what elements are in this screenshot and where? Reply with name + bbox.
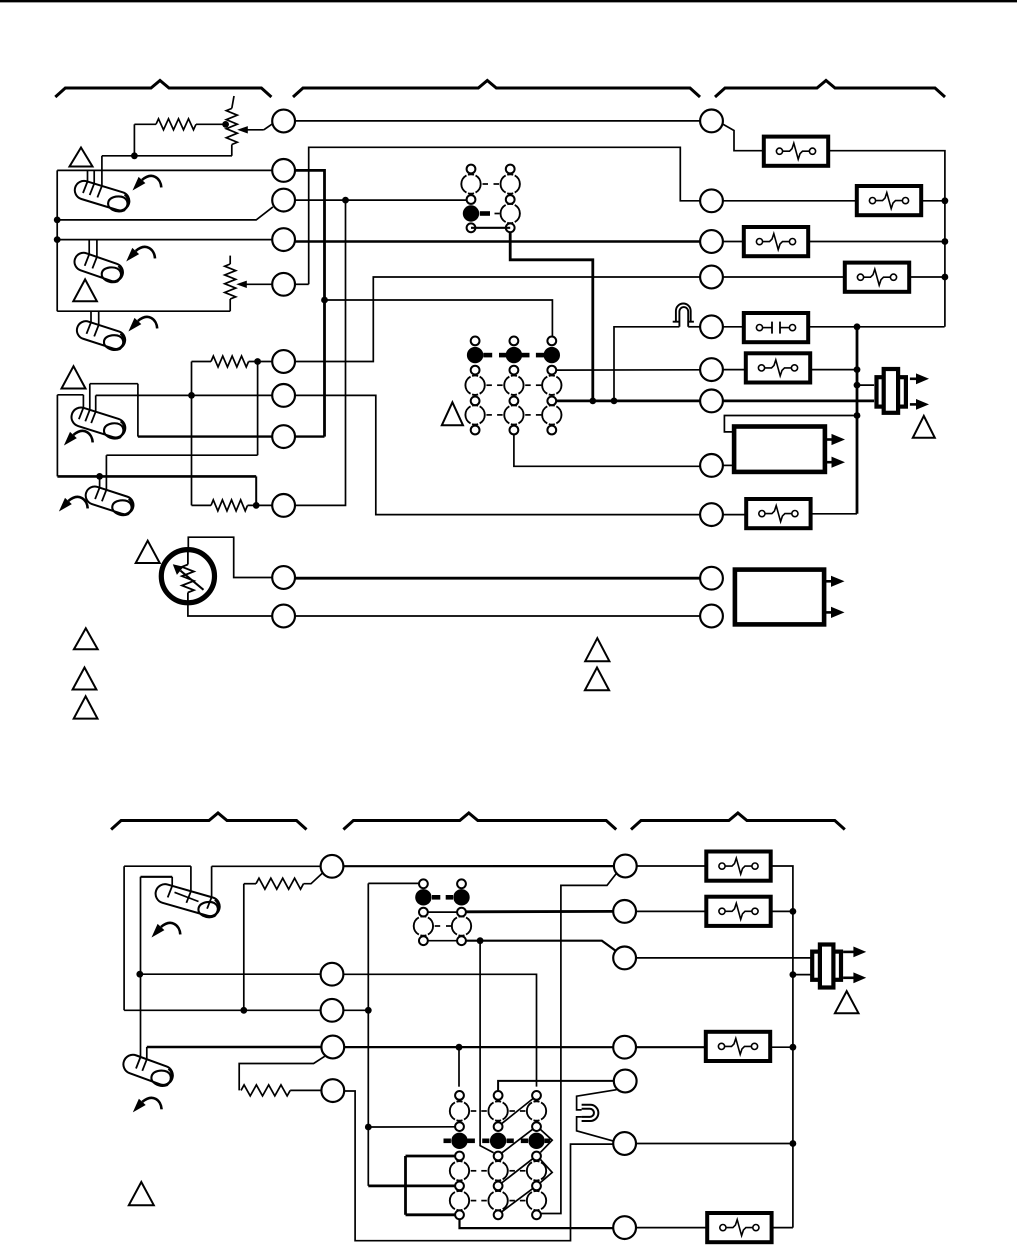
K3 row3 link bbox=[428, 911, 457, 913]
relay contact K4 column 3 bbox=[532, 1091, 541, 1100]
overload box F10 bbox=[707, 1213, 771, 1242]
terminal L4 bbox=[272, 228, 295, 251]
capacitor box C1 bbox=[744, 313, 808, 342]
wire S5 row lower bbox=[57, 475, 256, 478]
resistor R4 wire bbox=[192, 504, 212, 506]
junction dot riser G4 bbox=[790, 1044, 797, 1051]
wire K4 col3 bottom right bbox=[541, 873, 617, 1214]
wire S5 electrode b bbox=[105, 455, 107, 490]
K1 tick marks row2 bbox=[483, 183, 489, 185]
terminal R10 bbox=[700, 567, 723, 590]
junction dot R4 right bbox=[253, 502, 260, 509]
wire F4 right bbox=[909, 276, 945, 278]
brace group 2 (middle section, upper diagram) bbox=[293, 81, 700, 98]
note triangle 5 bbox=[74, 628, 98, 649]
K1 bottom link bbox=[471, 227, 510, 229]
resistor R5 wire bbox=[244, 883, 256, 885]
relay contact K3 column 1 bbox=[419, 879, 428, 888]
K4 tick marks row8 bbox=[471, 1200, 477, 1202]
terminal G7 bbox=[613, 1216, 636, 1239]
terminal G2 bbox=[613, 900, 636, 923]
overload box F7 bbox=[706, 852, 770, 881]
overload box F5 bbox=[746, 353, 810, 382]
wire S4 loop right vertical bbox=[137, 384, 139, 437]
wire S4 left piece bbox=[57, 394, 83, 396]
wire F3 right bbox=[808, 241, 945, 243]
relay contact K2 column 1 bbox=[471, 337, 480, 346]
wire pot1 bottom row bbox=[102, 155, 232, 157]
wire L2 right thick bbox=[295, 170, 325, 436]
terminal G6 bbox=[613, 1132, 636, 1155]
wire L9 right riser bbox=[295, 200, 346, 505]
junction dot riser G6 bbox=[790, 1140, 797, 1147]
buzzer BZ1 bbox=[877, 377, 906, 406]
wire left bus vertical bbox=[56, 170, 58, 311]
wire S3 row bbox=[57, 310, 230, 312]
resistor R6 bbox=[241, 1085, 290, 1096]
wire K2 col2 drop to R8 bbox=[514, 434, 700, 466]
wire S1 electrode b bbox=[93, 170, 95, 183]
note triangle BZ2 bbox=[835, 991, 859, 1013]
wire F1 right bus bbox=[828, 151, 945, 327]
wire transformer T1 top bbox=[724, 416, 857, 432]
wire buzzer stub 2 bbox=[793, 974, 811, 976]
wire C right bbox=[343, 1009, 368, 1011]
wire K3 row5 to G3 bbox=[466, 941, 615, 951]
wire R8 lead bbox=[723, 464, 734, 466]
junction dot K3 row5 bbox=[477, 937, 484, 944]
note triangle K2 bbox=[442, 402, 463, 425]
wire F10 right bbox=[771, 1227, 793, 1229]
transformer box T2 bbox=[735, 570, 824, 625]
junction dot C riser bbox=[365, 1007, 372, 1014]
BZ2 arrow top bbox=[843, 951, 854, 954]
wire R1 to box F1 bbox=[722, 124, 764, 151]
K4 actuator bars bbox=[444, 1139, 451, 1144]
note triangle BZ1 bbox=[913, 416, 935, 438]
wire S2 electrode b bbox=[96, 240, 98, 257]
wire F6 right bbox=[811, 513, 857, 515]
terminal G1 bbox=[614, 855, 637, 878]
K4 diagonal link 4 bbox=[502, 1188, 533, 1212]
page top border line bbox=[0, 0, 1017, 2]
wire K4 row3 left bbox=[368, 1126, 455, 1128]
wire B riser left bbox=[140, 877, 142, 1057]
note triangle 9 bbox=[585, 668, 609, 691]
resistor R3 bbox=[211, 356, 249, 367]
wire K3 row1 link bbox=[368, 882, 418, 884]
wire S4 electrode mid bbox=[89, 384, 91, 410]
terminal A bbox=[321, 855, 344, 878]
wire bulb S1 electrode drop bbox=[101, 156, 103, 186]
wire terminal D row bbox=[147, 1046, 322, 1049]
wire S6 electrode a bbox=[171, 877, 173, 886]
overload box F3 bbox=[744, 227, 808, 256]
terminal R3 bbox=[700, 230, 723, 253]
terminal L10 bbox=[272, 566, 295, 589]
wire K4 jumper 5-9 bbox=[404, 1156, 407, 1215]
overload box F1 bbox=[764, 137, 828, 166]
terminal B bbox=[321, 963, 344, 986]
wire G1 lead bbox=[637, 865, 707, 867]
wire K2 col3 row3 to R6 bbox=[556, 369, 700, 371]
terminal L7 bbox=[272, 384, 295, 407]
wire K2 col3 row5 to R7 bbox=[556, 399, 700, 402]
overload box F6 bbox=[746, 499, 810, 528]
resistor R1 bbox=[156, 119, 196, 130]
wire G2 lead bbox=[636, 910, 707, 912]
terminal L3 bbox=[272, 189, 295, 212]
wire K1 col2 drop bbox=[510, 232, 593, 401]
terminal L5 bbox=[272, 273, 295, 296]
wire R5 lead bbox=[723, 326, 744, 328]
wire S2 electrode a bbox=[88, 240, 90, 255]
wire L6 right bbox=[295, 277, 700, 362]
wire G3 to buzzer bbox=[636, 957, 811, 959]
wire buzzer stub bbox=[857, 384, 874, 386]
wire F9 right bbox=[770, 1046, 793, 1048]
junction dot riser F5 bbox=[854, 366, 861, 373]
buzzer BZ2 bbox=[812, 952, 841, 980]
wire lamp branch riser bbox=[614, 327, 679, 401]
terminal R1 bbox=[700, 110, 723, 133]
note triangle 1 bbox=[70, 148, 93, 167]
wire K3 row3 to G2 bbox=[466, 910, 613, 913]
wire S1 electrode a bbox=[87, 170, 89, 181]
wire S3 electrode b bbox=[98, 311, 100, 325]
K2 actuator bars bbox=[483, 353, 492, 358]
junction dot L2 branch bbox=[321, 297, 328, 304]
rheostat bottom lead bbox=[188, 603, 273, 616]
terminal L2 bbox=[272, 159, 295, 182]
mercury switch S7 bbox=[120, 1052, 175, 1089]
brace group 3 (right section, upper diagram) bbox=[715, 81, 945, 98]
wire lamp to G6 bbox=[577, 1117, 616, 1142]
wire B to cluster K4 bbox=[343, 974, 536, 1086]
wire L7-R9 route bbox=[295, 395, 700, 514]
wire R6 lead bbox=[723, 369, 746, 371]
rotation arrow S2 bbox=[136, 247, 155, 258]
terminal R7 bbox=[700, 390, 723, 413]
wire F2 right bbox=[921, 200, 945, 202]
mercury switch S4 bbox=[69, 405, 128, 441]
wire F7 right riser bbox=[770, 866, 793, 1228]
terminal R9 bbox=[700, 503, 723, 526]
terminal R4 bbox=[700, 266, 723, 289]
overload box F2 bbox=[857, 186, 921, 215]
relay contact K1 column 1 bbox=[467, 165, 476, 174]
indicator lamp LP1 bbox=[676, 304, 691, 322]
potentiometer P1 bbox=[226, 108, 237, 144]
junction dot bus F3 bbox=[942, 238, 949, 245]
K2 tick marks row4 bbox=[486, 384, 492, 386]
BZ2 arrow bottom bbox=[843, 976, 854, 979]
wire L5 right bbox=[295, 283, 309, 285]
terminal R6 bbox=[700, 358, 723, 381]
K3 row5 link bbox=[428, 940, 457, 942]
note triangle 3 bbox=[62, 366, 86, 388]
terminal L8 bbox=[272, 425, 295, 448]
rotation arrow S4 bbox=[73, 431, 92, 442]
rotation arrow S3 bbox=[138, 317, 157, 328]
mercury switch S5 bbox=[83, 484, 136, 518]
wire K4 row5 left bbox=[406, 1155, 456, 1158]
wire L4-R3 bbox=[295, 240, 700, 242]
relay contact K4 column 1 bbox=[455, 1091, 464, 1100]
wire G5 lamp diagonal bbox=[577, 1090, 617, 1110]
K1 actuator bar bbox=[480, 211, 490, 216]
wire K4 col1 bottom to G7 bbox=[460, 1219, 614, 1228]
transformer box T1 bbox=[734, 427, 825, 472]
junction dot R1 lead bbox=[131, 152, 138, 159]
junction dot L3 bus bbox=[54, 217, 61, 224]
pot P1 wiper arrow bbox=[246, 129, 264, 131]
terminal G5 bbox=[614, 1070, 637, 1093]
terminal L9 bbox=[272, 494, 295, 517]
wire terminal L8 row bbox=[138, 435, 325, 437]
wire G7 lead bbox=[636, 1227, 708, 1229]
T2 arrow bottom bbox=[824, 611, 831, 614]
wire K4 col1 top bbox=[458, 1047, 460, 1087]
wire F8 right bbox=[770, 910, 793, 912]
terminal E bbox=[321, 1079, 344, 1102]
terminal G4 bbox=[613, 1036, 636, 1059]
terminal L11 bbox=[272, 605, 295, 628]
pot P2 wiper arrow bbox=[245, 283, 272, 285]
wire S6 electrode c bbox=[211, 866, 213, 897]
resistor R5 bbox=[256, 878, 304, 889]
junction dot K4 row3 bbox=[365, 1124, 372, 1131]
wire S7 electrode b bbox=[146, 1047, 148, 1059]
wire terminal C row bbox=[124, 1009, 321, 1011]
note triangle 2 bbox=[73, 279, 97, 301]
wire K4 col2 top stub bbox=[498, 1081, 614, 1091]
rotation arrow S7 bbox=[142, 1098, 161, 1109]
rotation arrow S6 bbox=[161, 923, 180, 934]
wire S4 electrode left bbox=[82, 395, 84, 408]
terminal L6 bbox=[272, 350, 295, 373]
relay contact K2 column 3 bbox=[547, 337, 556, 346]
mercury switch S6 bbox=[153, 882, 222, 920]
wire left bus 2 vertical bbox=[56, 395, 58, 477]
BZ1 arrow bottom bbox=[910, 403, 917, 406]
terminal R8 bbox=[700, 454, 723, 477]
wire R3 lead bbox=[723, 241, 744, 243]
note triangle 6 bbox=[73, 668, 97, 690]
resistor R1 wire bbox=[134, 123, 156, 125]
junction dot C1/riser bbox=[854, 323, 861, 330]
wire R4 lead bbox=[723, 276, 845, 278]
K4 tick marks row6 bbox=[471, 1170, 477, 1172]
pot P1 top stub bbox=[232, 96, 234, 108]
terminal R11 bbox=[700, 605, 723, 628]
junction dot bus F2 bbox=[942, 197, 949, 204]
wire F5 right bbox=[811, 369, 858, 371]
wire center riser bbox=[367, 883, 369, 1186]
T1 arrow top bbox=[825, 438, 832, 441]
wire terminal L2 row bbox=[57, 169, 272, 171]
junction dot riser G2 bbox=[790, 908, 797, 915]
K4 diagonal link 2 bbox=[502, 1129, 533, 1153]
relay contact K2 column 2 bbox=[510, 337, 519, 346]
terminal D bbox=[321, 1036, 344, 1059]
wire R5 left drop bbox=[243, 884, 245, 1011]
potentiometer P2 bbox=[225, 264, 236, 299]
wire C riser left bbox=[123, 866, 125, 1010]
junction dot at R1/pot1 bbox=[222, 121, 229, 128]
terminal R2 bbox=[700, 189, 723, 212]
wire S6 upper link bbox=[124, 865, 191, 867]
wire S1 electrode c slash bbox=[97, 186, 102, 198]
wire wiper to terminal L1 bbox=[264, 123, 273, 130]
note triangle 10 bbox=[129, 1182, 154, 1205]
brace group 1 (left section, upper diagram) bbox=[55, 81, 271, 98]
junction dot B riser bbox=[136, 971, 143, 978]
wire R3 dot drop bbox=[257, 362, 259, 456]
junction dot row5 b bbox=[611, 398, 618, 405]
note triangle 8 bbox=[585, 638, 609, 661]
wire D diagonal bbox=[239, 1056, 325, 1090]
mercury switch S2 bbox=[72, 250, 126, 285]
wire S3 electrode a bbox=[90, 311, 92, 322]
wire R7 to buzzer bbox=[723, 399, 874, 402]
overload box F9 bbox=[706, 1032, 770, 1061]
K4 diagonal link 3 bbox=[502, 1158, 533, 1183]
wire terminal B row bbox=[140, 973, 321, 975]
wire E loop bbox=[344, 1091, 613, 1241]
brace group 4 (left section, lower diagram) bbox=[111, 813, 306, 830]
wire R2 lead bbox=[723, 200, 857, 202]
wire S4 loop top bbox=[90, 383, 138, 385]
wire R4 right drop bbox=[255, 476, 257, 505]
junction dot riser buzzer 2 bbox=[790, 971, 797, 978]
junction dot S5 electrode bbox=[96, 473, 103, 480]
K3 tick marks row4 bbox=[435, 925, 441, 927]
wire L1-R1 bbox=[295, 120, 700, 122]
junction dot R3 right bbox=[254, 358, 261, 365]
heat anticipator rheostat bbox=[161, 550, 214, 603]
junction dot riser transformer bbox=[854, 412, 861, 419]
terminal R5 bbox=[700, 315, 723, 338]
junction dot C resistor bbox=[240, 1007, 247, 1014]
terminal L1 bbox=[272, 110, 295, 133]
wire R9 lead bbox=[723, 514, 746, 516]
junction dot L3/L9 tie bbox=[342, 197, 349, 204]
junction dot bus F4 bbox=[942, 274, 949, 281]
wire K4 row9 left bbox=[406, 1213, 456, 1216]
wire S6 lower link bbox=[141, 876, 173, 878]
overload box F8 bbox=[706, 897, 770, 926]
K4 tick marks row2 bbox=[471, 1110, 477, 1112]
note triangle 4 bbox=[136, 541, 160, 563]
wire L3 to cluster K1 bbox=[295, 199, 467, 201]
terminal C bbox=[321, 999, 344, 1022]
wire G6 right bbox=[636, 1143, 793, 1145]
wire right riser bbox=[856, 327, 859, 514]
wire R3-R5 tie vertical bbox=[191, 362, 193, 506]
wire S5 electrode a bbox=[99, 476, 101, 487]
wire terminal A row bbox=[212, 865, 321, 867]
rotation arrow S1 bbox=[142, 176, 161, 187]
mercury switch S3 bbox=[74, 319, 127, 353]
junction dot L7 row bbox=[188, 392, 195, 399]
K4 right bend 2 bbox=[541, 1160, 553, 1183]
wire S5 row upper bbox=[106, 454, 257, 456]
wire terminal L7 row bbox=[96, 394, 272, 396]
mercury switch S1 bbox=[72, 179, 132, 215]
wire C1 right bbox=[808, 326, 944, 328]
T1 arrow bottom bbox=[825, 461, 832, 464]
relay contact K4 column 2 bbox=[494, 1091, 503, 1100]
junction dot L4 bus bbox=[54, 236, 61, 243]
junction dot row5 a bbox=[589, 398, 596, 405]
rotation arrow S5 bbox=[68, 497, 87, 508]
wire L11-R11 bbox=[295, 615, 700, 617]
brace group 6 (right section, lower diagram) bbox=[631, 813, 845, 830]
overload box F4 bbox=[845, 263, 909, 292]
K4 right bend 1 bbox=[541, 1130, 553, 1153]
wire S4 electrode right bbox=[95, 395, 97, 411]
wire L10-R10 bbox=[295, 577, 700, 580]
wire D to G4 bbox=[344, 1046, 613, 1048]
wire A to G1 bbox=[343, 865, 614, 867]
terminal G3 bbox=[613, 947, 636, 970]
wire terminal L3 row bbox=[57, 207, 273, 220]
junction dot K4 col1 top bbox=[456, 1044, 463, 1051]
wire branch to cluster K2 bbox=[325, 300, 553, 336]
rheostat top lead bbox=[188, 537, 272, 577]
T2 arrow top bbox=[824, 580, 831, 583]
resistor R3 wire bbox=[192, 361, 212, 363]
BZ1 arrow top bbox=[910, 377, 917, 380]
wire S6 electrode b bbox=[190, 866, 192, 891]
note triangle 7 bbox=[74, 696, 98, 718]
brace group 5 (middle section, lower diagram) bbox=[343, 813, 616, 830]
K4 diagonal link 1 bbox=[502, 1099, 533, 1124]
relay contact K3 column 2 bbox=[457, 879, 466, 888]
wire terminal L4 row bbox=[57, 239, 272, 241]
wire G4 lead bbox=[636, 1046, 706, 1048]
relay contact K1 column 2 bbox=[506, 165, 515, 174]
resistor R4 bbox=[211, 500, 248, 511]
K3 actuator bars bbox=[432, 895, 440, 900]
wire L5-R2 route bbox=[309, 147, 700, 284]
indicator lamp LP2 bbox=[582, 1105, 599, 1121]
K2 tick marks row6 bbox=[486, 414, 492, 416]
resistor R6 wire bbox=[290, 1089, 321, 1091]
junction dot riser buzzer bbox=[854, 382, 861, 389]
wire K4 col2 riser bbox=[480, 941, 494, 1153]
wire K4 row7 left bbox=[368, 1185, 455, 1188]
wire R1 left lead down bbox=[133, 124, 135, 156]
